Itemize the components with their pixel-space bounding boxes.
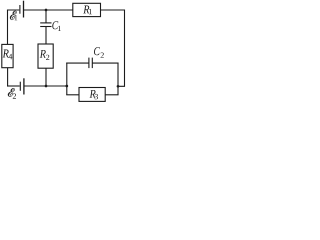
- resistor R2 box: [38, 44, 53, 68]
- wire junction down to C1: [45, 10, 47, 23]
- wire bottom: battery E2 to parallel block: [24, 85, 67, 87]
- resistor R3 label: [90, 90, 96, 98]
- wire parallel block right vertical: [117, 63, 119, 95]
- node junction dot right of parallel block: [117, 85, 120, 88]
- resistor R1 label: [83, 6, 89, 14]
- wire top: battery E1 to R1: [24, 9, 73, 11]
- resistor R4 box: [2, 44, 13, 67]
- battery E1 short plate: [19, 5, 21, 14]
- emf E2 subscript: [13, 93, 16, 98]
- wire parallel block bottom branch left: [66, 94, 79, 96]
- battery E2 short plate: [19, 82, 21, 91]
- capacitor C2 label: [94, 47, 100, 55]
- wire parallel block left vertical: [66, 63, 68, 95]
- capacitor C1 bottom plate: [40, 26, 51, 28]
- capacitor C1 top plate: [40, 22, 51, 24]
- wire parallel block top branch to C2: [66, 62, 88, 64]
- resistor R4 label: [3, 50, 9, 58]
- wire R3 to right vertical: [105, 94, 118, 96]
- wire left+top: from R4 top up and right to battery E1: [8, 10, 20, 44]
- node junction dot left of parallel block: [65, 85, 68, 88]
- capacitor C1 label: [52, 21, 58, 29]
- emf E2 script glyph: [8, 88, 15, 96]
- wire bottom-left to battery E2: [7, 85, 20, 87]
- capacitor C2 left plate: [88, 58, 90, 69]
- node junction dot top C1 tap: [45, 9, 48, 12]
- resistor R2 label: [40, 50, 46, 58]
- wire R2 to bottom junction: [45, 68, 47, 86]
- resistor R1 box: [73, 3, 101, 16]
- wire C1 to R2: [45, 27, 47, 45]
- capacitor C2 right plate: [91, 58, 93, 69]
- wire main right: junction right and up to R1: [101, 10, 125, 86]
- resistor R3 box: [79, 88, 105, 102]
- battery E2 long plate: [23, 78, 25, 94]
- emf E1 subscript: [15, 15, 18, 20]
- wire C2 to right vertical: [92, 62, 118, 64]
- emf E1 script glyph: [10, 11, 17, 20]
- wire R4 to bottom wire: [7, 68, 9, 87]
- node junction dot bottom R2 tap: [45, 85, 48, 88]
- battery E1 long plate: [23, 1, 25, 18]
